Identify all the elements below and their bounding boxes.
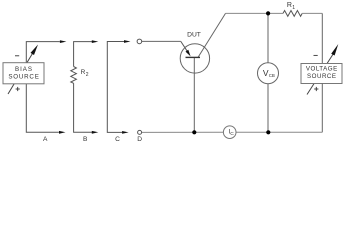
- wire loop3 top to terminal: [107, 42, 124, 133]
- svg-text:R: R: [287, 2, 292, 9]
- top rail wire right of R1: [302, 12, 322, 14]
- svg-text:A: A: [43, 136, 48, 143]
- bottom rail wire D to IC meter: [142, 131, 224, 133]
- arrowhead bottom wire node A: [59, 131, 66, 134]
- arrowhead top wire 2: [92, 40, 99, 43]
- label plus bias: [16, 87, 20, 91]
- arrowhead transistor emitter: [186, 50, 191, 57]
- meter VCB circle: [258, 63, 279, 84]
- label minus voltage: [314, 54, 318, 56]
- bias source variable arrow line: [8, 53, 33, 94]
- terminal open circle node D: [138, 130, 142, 134]
- voltage source right branch top vertical: [321, 13, 323, 63]
- bottom rail wire IC meter to corner: [236, 131, 323, 133]
- resistor R2 bottom wire to node B: [74, 83, 92, 132]
- svg-text:C: C: [230, 131, 234, 137]
- voltage source box VS1: [301, 64, 342, 84]
- meter IC circle: [223, 126, 236, 139]
- transistor DUT base bar: [186, 56, 201, 58]
- arrowhead bottom wire node B: [92, 131, 99, 134]
- bias source box BS1: [3, 63, 44, 84]
- voltage source bottom vertical: [321, 84, 323, 133]
- svg-text:D: D: [137, 136, 142, 143]
- voltage source variable arrow line: [307, 54, 334, 95]
- svg-text:2: 2: [86, 72, 89, 78]
- junction dot top rail: [266, 11, 270, 15]
- wire bias bottom vertical to node A: [26, 84, 59, 133]
- transistor DUT base lead: [193, 57, 195, 132]
- arrowhead top wire 3: [124, 40, 131, 43]
- junction dot base bottom: [192, 130, 196, 134]
- label minus bias: [15, 55, 19, 57]
- svg-text:BIAS: BIAS: [15, 66, 33, 73]
- transistor DUT collector diagonal: [198, 13, 226, 57]
- svg-text:C: C: [115, 136, 120, 143]
- terminal open circle top: [137, 39, 142, 44]
- top rail wire: [226, 12, 284, 14]
- resistor R2 top wire: [74, 42, 92, 67]
- meter VCB bottom wire: [267, 84, 269, 133]
- label plus voltage: [314, 87, 318, 91]
- svg-text:SOURCE: SOURCE: [307, 73, 336, 80]
- arrowhead voltage source arrow: [331, 44, 338, 56]
- wire terminal to transistor emitter: [142, 40, 181, 42]
- svg-text:DUT: DUT: [187, 31, 201, 38]
- svg-text:1: 1: [292, 5, 295, 11]
- svg-text:CB: CB: [269, 73, 275, 78]
- svg-text:SOURCE: SOURCE: [8, 73, 39, 80]
- svg-text:B: B: [83, 136, 88, 143]
- arrowhead top wire 1: [60, 40, 67, 43]
- svg-text:VOLTAGE: VOLTAGE: [306, 66, 338, 73]
- resistor R1 zigzag: [283, 11, 302, 17]
- junction dot VCB bottom: [266, 130, 270, 134]
- transistor DUT emitter diagonal: [181, 41, 187, 51]
- arrowhead bias source arrow: [31, 45, 39, 56]
- transistor DUT circle: [180, 44, 209, 73]
- wire bias top vertical: [26, 42, 60, 63]
- resistor R2 zigzag: [71, 67, 77, 84]
- arrowhead bottom wire node C: [122, 131, 129, 134]
- meter VCB top wire: [267, 13, 269, 62]
